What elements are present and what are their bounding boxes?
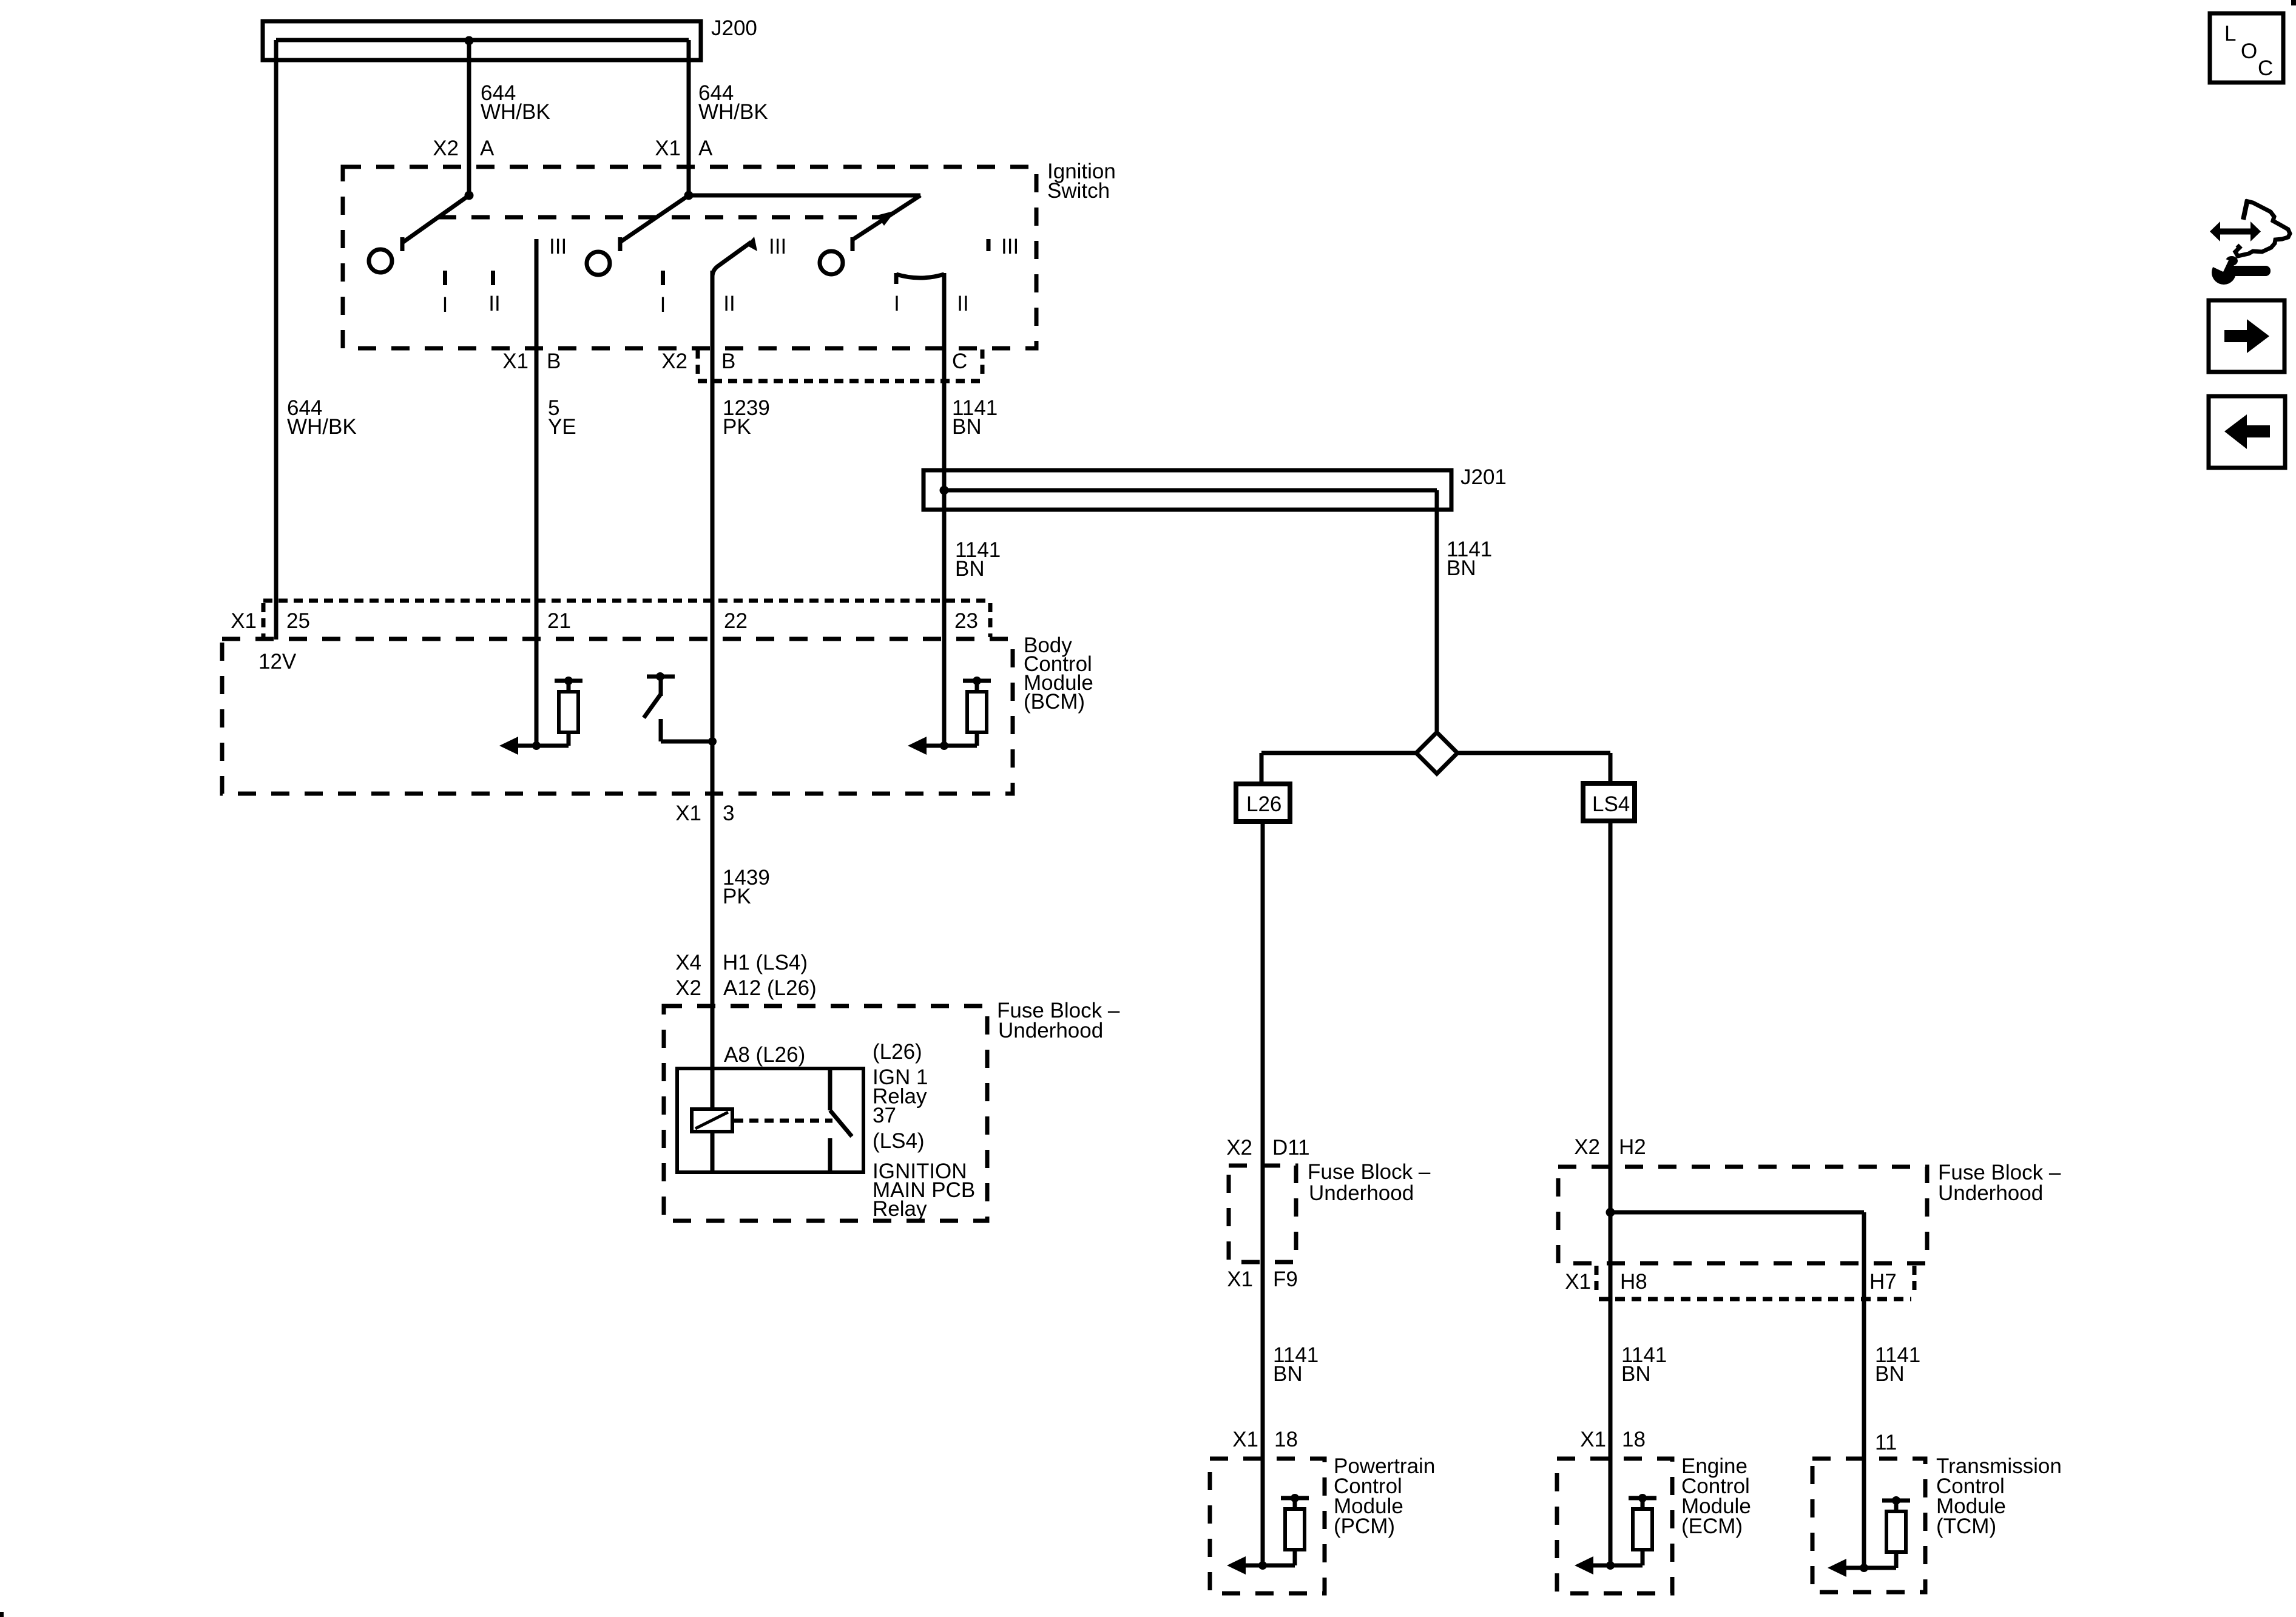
- pole 1 position III contact / wire 5 YE to BCM pin 21: [535, 239, 539, 746]
- relay switch blade: [830, 1110, 852, 1136]
- svg-text:(LS4): (LS4): [873, 1129, 925, 1153]
- svg-text:B: B: [721, 349, 735, 373]
- svg-text:III: III: [549, 235, 567, 258]
- BCM dashed box: [222, 639, 1013, 794]
- svg-text:WH/BK: WH/BK: [698, 100, 768, 124]
- svg-text:BN: BN: [1447, 556, 1476, 580]
- relay switch fixed contact upper: [828, 1068, 832, 1110]
- svg-text:X1: X1: [655, 137, 681, 160]
- TCM ground arrow: [1843, 1566, 1896, 1570]
- svg-text:Fuse Block –: Fuse Block –: [1308, 1160, 1431, 1184]
- pole 2 spring-return curve with arrow to III: [712, 242, 751, 277]
- svg-text:A: A: [480, 137, 495, 160]
- svg-text:II: II: [957, 292, 968, 316]
- svg-text:3: 3: [723, 802, 734, 825]
- svg-text:X2: X2: [433, 137, 459, 160]
- ECM ground arrow: [1590, 1564, 1643, 1568]
- PCM ground arrow: [1242, 1564, 1295, 1568]
- svg-text:H2: H2: [1619, 1135, 1646, 1159]
- svg-text:X1: X1: [502, 349, 528, 373]
- junction dot inside fuse block: [1606, 1208, 1615, 1217]
- svg-text:BN: BN: [1273, 1362, 1303, 1386]
- svg-text:X1: X1: [1227, 1268, 1253, 1291]
- pole 3 arc left tick: [894, 273, 899, 284]
- svg-text:I: I: [894, 292, 900, 316]
- splice diamond: [1416, 732, 1457, 774]
- BCM internal switch (pin 22): [708, 737, 717, 746]
- BCM pin 23 ground arrow: [923, 744, 977, 748]
- svg-text:YE: YE: [548, 415, 576, 439]
- forward arrow box icon: [2209, 300, 2284, 372]
- fuse block underhood dashed box (ECM/TCM feed): [1558, 1167, 1927, 1263]
- junction dot on J200 inner bus: [465, 36, 474, 46]
- ignition switch pole 2 common junction dot: [684, 191, 694, 200]
- svg-text:BN: BN: [1875, 1362, 1905, 1386]
- ignition switch pole 1 wiper circle: [369, 249, 392, 272]
- link from pole 2 common to pole 3 blade: [689, 194, 920, 198]
- PCM internal resistor: [1281, 1496, 1309, 1501]
- svg-text:X1: X1: [1565, 1270, 1591, 1294]
- svg-text:18: 18: [1622, 1428, 1646, 1451]
- svg-text:X1: X1: [1580, 1428, 1606, 1451]
- svg-text:F9: F9: [1273, 1268, 1298, 1291]
- svg-text:II: II: [488, 292, 500, 316]
- adjust hand icon wrench: [2212, 260, 2236, 285]
- svg-text:BN: BN: [952, 415, 982, 439]
- svg-text:PK: PK: [723, 885, 751, 908]
- ignition switch pole 3 wiper tick: [851, 237, 855, 251]
- svg-text:BN: BN: [955, 557, 985, 581]
- wire to L26 branch: [1261, 751, 1416, 755]
- svg-text:C: C: [2258, 56, 2273, 80]
- branch wire to H7: [1610, 1210, 1864, 1215]
- BCM pin 23 pull-down resistor: [963, 679, 991, 683]
- svg-text:23: 23: [954, 609, 978, 633]
- BCM X1 connector strip: [263, 599, 990, 603]
- svg-text:WH/BK: WH/BK: [481, 100, 550, 124]
- ignition switch pole 1 common junction dot: [465, 191, 474, 200]
- svg-text:I: I: [660, 293, 666, 317]
- pole 3 position II contact / wire 1141 BN to BCM pin 23: [942, 273, 947, 746]
- wire 644 WH/BK (J200 left to BCM pin 25): [274, 40, 279, 640]
- relay switch fixed contact lower: [828, 1138, 832, 1172]
- ECM internal resistor: [1629, 1496, 1656, 1501]
- ignition switch pole 3 wiper circle: [820, 251, 843, 274]
- svg-text:(L26): (L26): [873, 1040, 922, 1064]
- ignition switch pole 2 wiper circle: [587, 252, 610, 275]
- svg-text:J201: J201: [1460, 465, 1507, 489]
- svg-text:H8: H8: [1620, 1270, 1647, 1294]
- wire 1141 BN (J201 right drop): [1435, 490, 1439, 734]
- pole 1 position I contact dash: [443, 271, 447, 285]
- pole 3 bridging contact arc: [896, 274, 944, 278]
- svg-text:L26: L26: [1246, 792, 1281, 816]
- svg-text:B: B: [547, 349, 561, 373]
- svg-text:(PCM): (PCM): [1334, 1514, 1395, 1538]
- svg-text:(TCM): (TCM): [1936, 1514, 1996, 1538]
- RPO code box LS4: [1583, 783, 1635, 821]
- ignition switch pole 1 wiper blade: [402, 195, 469, 243]
- page corner mark bottom left: [0, 1612, 4, 1617]
- svg-text:Underhood: Underhood: [1938, 1181, 2043, 1205]
- ignition switch pole 1 wiper tick: [400, 237, 405, 251]
- back arrow box icon: [2209, 396, 2285, 468]
- svg-text:X2: X2: [1574, 1135, 1600, 1159]
- RPO code box L26: [1236, 784, 1290, 822]
- svg-text:PK: PK: [723, 415, 751, 439]
- mechanical coupling dashed line: [438, 215, 887, 220]
- page corner mark top right: [2291, 0, 2296, 5]
- svg-text:22: 22: [724, 609, 748, 633]
- wire 1141 BN (H8 to ECM): [1609, 1212, 1613, 1565]
- svg-text:X2: X2: [675, 976, 701, 1000]
- ECM dashed box: [1557, 1459, 1672, 1593]
- svg-text:I: I: [442, 293, 448, 317]
- adjust hand icon double arrow: [2218, 229, 2252, 235]
- svg-text:(BCM): (BCM): [1024, 690, 1085, 714]
- svg-text:III: III: [1001, 235, 1019, 258]
- ignition switch S1 dashed box: [343, 167, 1036, 348]
- relay actuation dashed line: [734, 1119, 832, 1123]
- svg-text:X2: X2: [1226, 1136, 1252, 1160]
- BCM pin 21 pull-down resistor: [555, 679, 582, 683]
- splice pack J200 bus bar: [263, 21, 701, 60]
- wire 1141 BN (L26 branch down to fuse block): [1261, 822, 1265, 1166]
- wire through PCM-feed fuse block: [1261, 1166, 1265, 1565]
- svg-text:X1: X1: [1232, 1428, 1258, 1451]
- TCM dashed box: [1812, 1459, 1925, 1592]
- BCM pin 21 ground arrow: [515, 744, 569, 748]
- svg-text:H1 (LS4): H1 (LS4): [723, 951, 808, 974]
- svg-text:18: 18: [1274, 1428, 1298, 1451]
- PCM dashed box: [1210, 1459, 1325, 1593]
- svg-text:L: L: [2224, 22, 2236, 46]
- svg-text:X1: X1: [675, 802, 701, 825]
- svg-text:X1: X1: [231, 609, 257, 633]
- wire 1141 BN (LS4 branch down to fuse block): [1609, 821, 1613, 1212]
- TCM internal resistor: [1882, 1499, 1910, 1503]
- LOC reference box icon: [2210, 13, 2283, 83]
- svg-text:(ECM): (ECM): [1681, 1514, 1743, 1538]
- svg-text:A12 (L26): A12 (L26): [723, 976, 817, 1000]
- ignition switch X2 connector dashed box: [696, 349, 700, 379]
- svg-text:Switch: Switch: [1047, 179, 1110, 203]
- relay coil: [692, 1109, 732, 1132]
- adjust hand icon outline: [2243, 200, 2247, 220]
- pole 2 position II contact / wire 1239 PK to relay coil: [711, 271, 715, 1109]
- svg-text:III: III: [769, 235, 786, 258]
- pole 3 position III contact dash: [987, 239, 991, 251]
- svg-text:A: A: [698, 137, 713, 160]
- svg-text:12V: 12V: [258, 650, 297, 673]
- svg-text:WH/BK: WH/BK: [287, 415, 357, 439]
- svg-text:21: 21: [547, 609, 571, 633]
- svg-text:Relay: Relay: [873, 1197, 927, 1221]
- svg-text:X2: X2: [661, 349, 687, 373]
- svg-text:25: 25: [286, 609, 310, 633]
- wire 644 WH/BK (J200 to ignition switch X1 A): [687, 40, 691, 195]
- ignition switch pole 2 wiper tick: [618, 237, 623, 251]
- svg-text:C: C: [952, 349, 967, 373]
- svg-text:O: O: [2241, 39, 2257, 63]
- svg-text:37: 37: [873, 1104, 896, 1127]
- svg-text:A8 (L26): A8 (L26): [724, 1043, 805, 1067]
- svg-text:II: II: [723, 292, 735, 316]
- svg-text:Underhood: Underhood: [1309, 1181, 1414, 1205]
- svg-text:Underhood: Underhood: [998, 1019, 1103, 1042]
- splice pack J201 bus bar: [923, 470, 1451, 510]
- ignition switch pole 2 wiper blade: [620, 195, 689, 242]
- svg-text:BN: BN: [1621, 1362, 1651, 1386]
- fuse block X1 connector dashed marks: [1595, 1266, 1599, 1295]
- svg-text:X4: X4: [675, 951, 701, 974]
- ignition switch pole 3 wiper blade with arrow: [853, 195, 920, 240]
- svg-text:H7: H7: [1869, 1270, 1897, 1294]
- svg-text:LS4: LS4: [1592, 792, 1630, 816]
- svg-text:D11: D11: [1272, 1136, 1310, 1160]
- fuse block underhood dashed box (relay): [664, 1006, 987, 1221]
- fuse block underhood dashed box (PCM feed): [1229, 1166, 1296, 1262]
- junction dot on J201: [940, 486, 949, 495]
- wire 644 WH/BK (J200 to ignition switch X2 A): [467, 41, 471, 195]
- wire to LS4 branch: [1457, 751, 1610, 755]
- svg-text:J200: J200: [711, 16, 757, 40]
- svg-text:11: 11: [1875, 1431, 1897, 1454]
- relay coil lower lead: [711, 1132, 715, 1172]
- pole 2 position I contact dash: [661, 271, 665, 285]
- pole 1 position II contact dash: [491, 271, 495, 285]
- relay K1 box: [677, 1068, 863, 1172]
